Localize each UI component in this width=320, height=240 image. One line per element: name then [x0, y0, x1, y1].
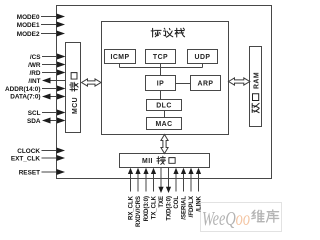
pin RXD(3:0) [143, 168, 150, 222]
block UDP [188, 50, 218, 64]
svg-text:/WR: /WR [28, 62, 41, 69]
svg-text:CLOCK: CLOCK [17, 148, 40, 155]
block DLC [147, 100, 182, 111]
block MII interface [120, 154, 210, 168]
wire TCP to bus [160, 64, 162, 68]
svg-text:RXD(3:0): RXD(3:0) [144, 196, 150, 221]
double arrow protocol stack to RAM [229, 78, 250, 85]
svg-text:IP: IP [157, 81, 164, 88]
wire ICMP to bus [119, 64, 121, 68]
pin /LINK [196, 168, 203, 212]
pin MODE0 [17, 14, 65, 21]
svg-text:MODE2: MODE2 [17, 31, 40, 38]
wire IP to ARP [176, 83, 191, 85]
svg-text:ARP: ARP [198, 81, 214, 88]
svg-text:ICMP: ICMP [110, 54, 129, 61]
svg-text:MAC: MAC [155, 121, 172, 128]
pin DATA(7:0) [10, 93, 65, 100]
protocol stack box [102, 22, 229, 135]
block MCU interface [66, 43, 81, 133]
svg-text:MII: MII [142, 158, 153, 165]
svg-text:TCP: TCP [153, 54, 168, 61]
svg-text:RXDV/CRS: RXDV/CRS [136, 196, 142, 227]
double arrow MCU to protocol stack [82, 79, 102, 86]
svg-text:/LINK: /LINK [197, 195, 203, 211]
svg-text:MCU: MCU [72, 97, 79, 114]
pin ADDR(14:0) [5, 86, 66, 93]
pin EXT_CLK [11, 155, 65, 162]
pin RX_CLK [128, 168, 135, 220]
bus line [120, 67, 203, 69]
pin /RD [29, 70, 65, 77]
svg-text:RESET: RESET [19, 169, 40, 176]
block MAC [147, 118, 182, 130]
pin TXE [158, 168, 165, 208]
svg-text:TXE: TXE [159, 196, 165, 208]
double arrow protocol stack to MII [161, 135, 168, 154]
svg-text:UDP: UDP [195, 54, 211, 61]
svg-text:COL: COL [174, 196, 180, 209]
wire UDP to bus [202, 64, 204, 68]
svg-text:/FDPLX: /FDPLX [189, 196, 195, 217]
pin CLOCK [17, 148, 65, 155]
block dual-port RAM [250, 47, 262, 127]
pin RESET [19, 169, 65, 176]
svg-text:DLC: DLC [156, 103, 172, 110]
svg-text:ADDR(14:0): ADDR(14:0) [5, 86, 41, 93]
block IP [146, 76, 176, 91]
block TCP [146, 50, 176, 64]
wire bus to IP [160, 68, 162, 76]
wire DLC to MAC [164, 111, 166, 118]
watermark box [201, 203, 282, 232]
pin /FDPLX [188, 168, 195, 218]
pin SCL [28, 110, 66, 117]
title 协议栈 [151, 28, 161, 36]
pin RXDV/CRS [135, 168, 142, 227]
pin MODE2 [17, 31, 65, 38]
pin COL [173, 168, 180, 209]
pin /WR [28, 62, 65, 69]
outer chip box [57, 6, 272, 179]
svg-text:MODE0: MODE0 [17, 14, 40, 21]
svg-text:SCL: SCL [28, 110, 41, 117]
svg-text:DATA(7:0): DATA(7:0) [10, 93, 40, 100]
svg-text:/CS: /CS [30, 54, 41, 61]
pin SDA [27, 118, 66, 125]
svg-text:WeeQoo: WeeQoo [202, 208, 250, 230]
block ICMP [105, 50, 136, 64]
svg-text:TX_CLK: TX_CLK [152, 195, 158, 219]
svg-text:TXD(3:0): TXD(3:0) [167, 196, 173, 221]
pin MODE1 [17, 22, 65, 29]
watermark 维库 [252, 210, 264, 221]
svg-text:RX_CLK: RX_CLK [129, 195, 135, 220]
svg-text:EXT_CLK: EXT_CLK [11, 155, 41, 162]
pin /SERIAL [181, 168, 188, 220]
svg-text:/SERIAL: /SERIAL [182, 196, 188, 220]
pin TXD(3:0) [166, 168, 173, 221]
block ARP [191, 76, 221, 91]
pin /INT [28, 78, 65, 85]
pin /CS [30, 54, 66, 61]
svg-text:SDA: SDA [27, 118, 41, 125]
svg-text:MODE1: MODE1 [17, 22, 40, 29]
svg-text:/RD: /RD [29, 70, 40, 77]
svg-text:/INT: /INT [28, 78, 40, 85]
svg-text:RAM: RAM [254, 72, 261, 89]
pin TX_CLK [151, 168, 158, 220]
wire IP to DLC [160, 91, 162, 100]
